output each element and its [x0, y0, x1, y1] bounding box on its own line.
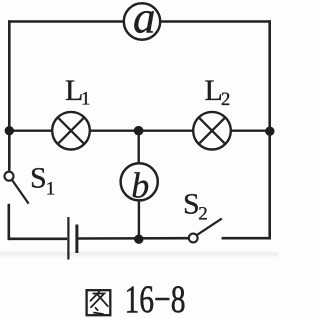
wire: bottom middle segment (battery to switch S2): [78, 237, 189, 240]
wire: center vertical, node to meter b: [137, 131, 139, 165]
junction node: right-middle: [265, 127, 274, 136]
wire: meter b to bottom node: [138, 200, 140, 240]
wire: left vertical upper (top corner to switch S1): [8, 20, 11, 171]
junction node: center-middle: [134, 126, 144, 136]
wire: middle horizontal (lamp branch): [9, 129, 269, 131]
lamp L2: [193, 112, 231, 150]
wire: bottom right segment (S2 to corner): [222, 237, 271, 240]
caption: character 图: [87, 290, 111, 315]
ammeter a: [124, 0, 160, 42]
battery: short plate (negative): [75, 225, 78, 254]
wire: left vertical lower (S1 to bottom corner): [8, 204, 11, 240]
lamp L1: [52, 112, 90, 150]
wire: bottom left segment (corner to battery): [8, 238, 67, 241]
switch S1: [5, 172, 29, 204]
junction node: left-middle: [5, 126, 14, 135]
wire: top horizontal: [8, 20, 271, 23]
junction node: bottom: [134, 235, 143, 244]
wire: right vertical: [268, 20, 271, 239]
battery: long plate (positive): [67, 217, 69, 260]
svg-text:b: b: [131, 166, 149, 206]
switch S2: [189, 219, 222, 243]
svg-text:a: a: [133, 0, 156, 42]
scan artifact: faint gray band below circuit: [0, 252, 278, 257]
svg-text:16−8: 16−8: [125, 278, 186, 319]
voltmeter b: [121, 163, 158, 205]
